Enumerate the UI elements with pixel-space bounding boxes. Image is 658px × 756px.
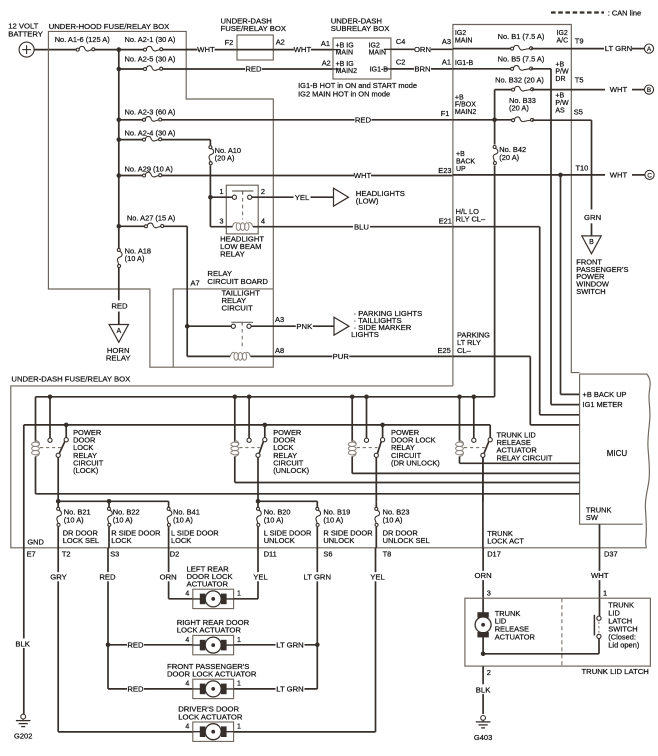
svg-text:No. A2-4 (30 A): No. A2-4 (30 A)	[125, 129, 176, 138]
svg-text:LOCK: LOCK	[171, 536, 191, 545]
svg-text:MAIN: MAIN	[369, 50, 387, 57]
fuse No. A2-1 (30 A)	[125, 35, 197, 51]
svg-text:PUR: PUR	[333, 352, 350, 361]
svg-text:UP: UP	[456, 166, 466, 173]
trunk lid latch switch	[594, 600, 639, 649]
svg-text:YEL: YEL	[295, 193, 310, 202]
svg-text:(LOW): (LOW)	[356, 197, 379, 206]
MICU box	[580, 374, 651, 548]
svg-text:IG1 METER: IG1 METER	[583, 400, 624, 409]
UNDER-DASH FUSE/RELAY BOX outline (bottom)	[11, 375, 647, 548]
svg-text:No. A2-1 (30 A): No. A2-1 (30 A)	[125, 35, 176, 44]
svg-text:MAIN2: MAIN2	[336, 68, 358, 75]
svg-text:No. A27 (15 A): No. A27 (15 A)	[127, 214, 176, 223]
svg-text:S6: S6	[323, 549, 332, 558]
label POWER DOOR LOCK RELAY CIRCUIT (UNLOCK)	[273, 428, 309, 475]
svg-text:ORN: ORN	[414, 45, 431, 54]
svg-text:(10 A): (10 A)	[125, 254, 145, 263]
svg-text:BLK: BLK	[476, 685, 491, 694]
svg-text:1: 1	[603, 588, 607, 597]
svg-text:LOCK SEL: LOCK SEL	[63, 536, 99, 545]
relay coil – power door lock (UNLOCK)	[231, 397, 580, 483]
svg-text:WHT: WHT	[610, 85, 628, 94]
svg-text:+B: +B	[456, 151, 465, 158]
svg-text:(LOCK): (LOCK)	[73, 466, 99, 475]
svg-text:C4: C4	[396, 37, 406, 46]
label +B F/BOX MAIN2 (F1)	[455, 94, 477, 116]
svg-text:A: A	[647, 46, 652, 53]
svg-text:GRY: GRY	[50, 572, 67, 581]
UNDER-DASH SUBRELAY BOX	[331, 16, 391, 79]
wire – lock relay output bus to fuses B21 B22 B41	[56, 499, 169, 504]
svg-text:T8: T8	[383, 549, 392, 558]
fuse No. B32 (20 A) row – +B P/W DR	[495, 61, 605, 120]
battery 12 VOLT	[8, 22, 43, 58]
svg-text:(10 A): (10 A)	[383, 515, 403, 524]
wire LT GRN to terminal A	[604, 44, 654, 53]
label POWER DOOR LOCK RELAY CIRCUIT (LOCK)	[73, 428, 104, 475]
svg-text:(10 A): (10 A)	[323, 515, 343, 524]
wire PNK – taillight relay A3 to parking lights	[251, 315, 334, 331]
label POWER DOOR LOCK RELAY CIRCUIT (DR UNLOCK)	[391, 428, 440, 467]
wire BRN – subrelay C2 to under-dash A1	[391, 57, 453, 73]
svg-text:No. A2-3 (60 A): No. A2-3 (60 A)	[125, 108, 176, 117]
svg-text:MICU: MICU	[607, 449, 628, 458]
svg-text:A2: A2	[322, 58, 331, 67]
fuse No. A27 (15 A)	[117, 214, 188, 229]
driver's door lock actuator	[178, 705, 243, 742]
wire RED – to horn relay	[111, 268, 128, 325]
svg-text:B: B	[647, 87, 651, 94]
taillight relay	[230, 322, 253, 360]
svg-text:CL–: CL–	[457, 346, 472, 355]
svg-text:T5: T5	[575, 75, 584, 84]
svg-text:E25: E25	[438, 346, 451, 355]
svg-text:RED: RED	[127, 640, 144, 649]
fuse No. B19 (10 A) – R SIDE DOOR UNLOCK (S6)	[316, 501, 373, 558]
svg-text:E23: E23	[438, 166, 451, 175]
note – IG1-B / IG2 MAIN hot modes	[298, 81, 417, 98]
wire YEL – relay pin 2 to headlights	[252, 193, 334, 202]
wire ORN – D17 to trunk lid release actuator	[475, 548, 492, 613]
svg-text:GRN: GRN	[584, 213, 601, 222]
wire LT GRN – S6 to right rear / front passenger actuators pin 1	[227, 548, 332, 694]
svg-text:RELAY CIRCUIT: RELAY CIRCUIT	[497, 453, 553, 462]
svg-text:BRN: BRN	[414, 65, 430, 74]
svg-text:IG1-B: IG1-B	[370, 66, 389, 73]
label TRUNK LID RELEASE ACTUATOR RELAY CIRCUIT	[497, 431, 553, 463]
svg-text:P/W: P/W	[555, 100, 569, 107]
svg-text:F2: F2	[225, 38, 234, 47]
wire – actuator to latch switch	[481, 637, 599, 656]
svg-text:ORN: ORN	[475, 571, 492, 580]
svg-text:LT GRN: LT GRN	[605, 44, 632, 53]
wire BLK – actuator pin 2 to ground G403	[473, 666, 493, 714]
svg-text:A3: A3	[442, 37, 451, 46]
svg-text:A7: A7	[191, 279, 200, 288]
svg-text:RED: RED	[245, 65, 262, 74]
svg-text:IG1-B: IG1-B	[455, 60, 474, 67]
wire ORN – D2 to left rear actuator	[160, 548, 200, 599]
wire WHT – fuse A2-1 to under-dash F2	[186, 45, 237, 54]
svg-text:MAIN2: MAIN2	[455, 109, 477, 116]
fuse No. B42 (20 A) – +B BACK UP	[493, 120, 526, 397]
label PARKING LT RLY CL- (E25)	[457, 331, 490, 355]
svg-text:2: 2	[487, 668, 491, 677]
wire BLU – relay pin 4 to under-dash E21	[253, 216, 453, 231]
svg-text:+B BACK UP: +B BACK UP	[583, 390, 627, 399]
svg-text:A2: A2	[276, 37, 285, 46]
trunk lid release actuator (motor)	[475, 609, 535, 641]
svg-text:3: 3	[487, 588, 491, 597]
svg-text:T10: T10	[576, 164, 589, 173]
svg-text:WHT: WHT	[197, 45, 215, 54]
wire GRN – S5 down to window switch	[584, 120, 601, 236]
svg-text:CIRCUIT BOARD: CIRCUIT BOARD	[207, 277, 268, 286]
svg-text:(DR UNLOCK): (DR UNLOCK)	[391, 458, 440, 467]
svg-text:UNDER-HOOD FUSE/RELAY BOX: UNDER-HOOD FUSE/RELAY BOX	[49, 22, 170, 31]
svg-text:IG2: IG2	[455, 30, 466, 37]
svg-text:F1: F1	[441, 109, 450, 118]
left rear door lock actuator	[185, 564, 241, 608]
svg-text:2: 2	[261, 187, 265, 196]
svg-text:C2: C2	[396, 57, 406, 66]
svg-text:RELAY: RELAY	[106, 353, 131, 362]
svg-text:(10 A): (10 A)	[64, 515, 84, 524]
svg-text:ACTUATOR: ACTUATOR	[495, 632, 536, 641]
fuse No. A10 (20 A)	[209, 140, 241, 198]
relay switch – trunk lid release actuator relay	[457, 395, 492, 502]
svg-text:DR: DR	[555, 76, 565, 83]
wire – MICU TRUNK SW to D37	[600, 524, 618, 558]
svg-text:3: 3	[219, 216, 223, 225]
svg-text:RED: RED	[127, 685, 144, 694]
svg-text:D37: D37	[604, 549, 618, 558]
wire – +B feed bus (top)	[36, 396, 495, 398]
relay coil – power door lock (LOCK)	[32, 397, 580, 494]
svg-text:E21: E21	[439, 216, 452, 225]
svg-text:1: 1	[237, 591, 241, 598]
svg-text:D2: D2	[170, 549, 180, 558]
svg-text:4: 4	[185, 681, 189, 688]
svg-text:A8: A8	[275, 346, 284, 355]
wire YEL – D11 to left rear actuator pin 1	[227, 548, 269, 599]
svg-text:YEL: YEL	[253, 572, 268, 581]
wire WHT – E23 row to terminal C	[453, 164, 654, 180]
svg-text:LOCK: LOCK	[111, 536, 131, 545]
svg-text:LT GRN: LT GRN	[276, 640, 303, 649]
svg-text:C: C	[647, 172, 652, 179]
svg-text:LOCK ACTUATOR: LOCK ACTUATOR	[177, 626, 242, 635]
svg-text:+B: +B	[555, 61, 564, 68]
headlight low beam relay	[219, 185, 265, 234]
svg-text:4: 4	[261, 216, 265, 225]
svg-text:1: 1	[237, 724, 241, 731]
wire – E21 to MICU	[453, 227, 580, 415]
fuse No. B21 (10 A) – DR DOOR LOCK SEL (T2)	[57, 501, 99, 558]
TRUNK LID LATCH box	[465, 598, 651, 676]
svg-text:BLK: BLK	[15, 639, 30, 648]
svg-text:T2: T2	[62, 549, 71, 558]
svg-text:BATTERY: BATTERY	[8, 30, 43, 39]
svg-text:G202: G202	[14, 732, 32, 741]
svg-text:(UNLOCK): (UNLOCK)	[273, 466, 309, 475]
svg-text:YEL: YEL	[370, 572, 385, 581]
wire – trunk relay output to D17	[483, 457, 525, 558]
svg-text:D11: D11	[264, 549, 277, 558]
svg-text:No. A1-6 (125 A): No. A1-6 (125 A)	[55, 35, 111, 44]
svg-text:No. A2-5 (30 A): No. A2-5 (30 A)	[125, 55, 176, 64]
fuse No. A2-5 (30 A)	[117, 55, 176, 72]
svg-text:No. B32 (20 A): No. B32 (20 A)	[495, 75, 544, 84]
wire WHT – fuse A29 to under-dash E23	[162, 166, 453, 180]
UNDER-HOOD FUSE/RELAY BOX outline	[48, 22, 273, 367]
wire – unlock relay output bus to fuses B20 B19	[256, 499, 318, 504]
front passenger's door lock actuator	[167, 662, 257, 699]
svg-text:D17: D17	[487, 549, 501, 558]
wire RED – fuse A2-5 to subrelay A2	[163, 58, 333, 73]
svg-text:RED: RED	[111, 301, 128, 310]
wire – E25 to MICU	[453, 356, 580, 425]
wire WHT – F2 box to subrelay A1	[273, 39, 333, 54]
wire ORN – subrelay C4 to under-dash A3	[391, 37, 453, 54]
svg-text:SW: SW	[586, 513, 598, 522]
svg-text:LIGHTS: LIGHTS	[351, 330, 379, 339]
parking lights load arrow	[334, 309, 422, 339]
svg-text:RELAY: RELAY	[220, 250, 245, 259]
wire – fuse A27 down to relay circuit board (A7)	[187, 226, 199, 326]
svg-text:+B IG: +B IG	[336, 42, 354, 49]
svg-text:WHT: WHT	[610, 171, 628, 180]
fuse No. B41 (10 A) – L SIDE DOOR LOCK (D2)	[167, 501, 219, 558]
svg-text:TRUNK LID LATCH: TRUNK LID LATCH	[581, 667, 648, 676]
svg-text:+B: +B	[555, 93, 564, 100]
fuse No. B22 (10 A) – R SIDE DOOR LOCK (S3)	[108, 501, 162, 558]
CAN line legend	[551, 8, 641, 17]
svg-text:F/BOX: F/BOX	[455, 102, 476, 109]
fuse No. A18 (10 A)	[117, 246, 151, 267]
svg-text:(10 A): (10 A)	[113, 515, 133, 524]
svg-text:FUSE/RELAY BOX: FUSE/RELAY BOX	[221, 24, 287, 33]
headlights (LOW) load arrow	[334, 188, 405, 206]
svg-text:P/W: P/W	[555, 69, 569, 76]
svg-text:CIRCUIT: CIRCUIT	[222, 304, 253, 313]
svg-text:No. B5 (7.5 A): No. B5 (7.5 A)	[498, 55, 545, 64]
svg-text:BACK: BACK	[456, 158, 475, 165]
svg-text:(20 A): (20 A)	[215, 154, 235, 163]
svg-text:RLY CL–: RLY CL–	[456, 215, 486, 224]
svg-text:S5: S5	[574, 107, 583, 116]
svg-text:SWITCH: SWITCH	[576, 287, 605, 296]
svg-text:BLU: BLU	[354, 222, 369, 231]
svg-text:ORN: ORN	[160, 572, 177, 581]
relay switch – power door lock (DR UNLOCK)	[350, 395, 385, 502]
svg-text:UNDER-DASH FUSE/RELAY BOX: UNDER-DASH FUSE/RELAY BOX	[11, 375, 130, 384]
svg-text:RED: RED	[355, 115, 372, 124]
fuse No. B23 (10 A) – DR DOOR UNLOCK SEL (T8)	[375, 501, 430, 558]
relay switch – power door lock (LOCK)	[40, 395, 69, 502]
horn relay (A)	[106, 325, 131, 363]
svg-text:+B IG: +B IG	[336, 61, 354, 68]
svg-text:PNK: PNK	[296, 322, 313, 331]
svg-text:WHT: WHT	[591, 571, 609, 580]
label RELAY CIRCUIT BOARD	[207, 269, 268, 286]
fuse No. B33 (20 A) row – +B P/W AS / S5	[453, 93, 592, 123]
svg-text:WHT: WHT	[294, 45, 312, 54]
relay coil – trunk lid release actuator relay	[456, 397, 580, 464]
label GND (E7)	[27, 537, 45, 558]
UNDER-DASH FUSE/RELAY BOX outline (right)	[453, 25, 580, 386]
svg-text:UNLOCK SEL: UNLOCK SEL	[383, 536, 430, 545]
svg-text:ACTUATOR: ACTUATOR	[187, 580, 229, 589]
svg-text:T9: T9	[575, 37, 584, 46]
svg-text:SUBRELAY BOX: SUBRELAY BOX	[331, 24, 390, 33]
fuse No. A2-4 (30 A)	[117, 129, 211, 142]
wire – T10 junction down to MICU +B BACK UP	[558, 173, 579, 395]
svg-text:GND: GND	[27, 537, 44, 546]
fuse No. B5 (7.5 A) row – IG1-B to IG1 METER	[453, 55, 580, 405]
svg-text:IG2 MAIN HOT in ON mode: IG2 MAIN HOT in ON mode	[298, 89, 390, 98]
svg-text:MAIN: MAIN	[455, 37, 473, 44]
fuse No. A2-3 (60 A)	[117, 108, 176, 123]
svg-text:LT GRN: LT GRN	[276, 685, 303, 694]
label HEADLIGHT LOW BEAM RELAY	[220, 234, 264, 258]
svg-text:: CAN line: : CAN line	[608, 8, 641, 17]
svg-text:4: 4	[185, 724, 189, 731]
wire – A27 feed to taillight relay contact and coil	[185, 324, 231, 356]
label +B BACK UP (E23)	[456, 151, 475, 173]
svg-text:1: 1	[219, 187, 223, 196]
svg-text:RED: RED	[99, 572, 116, 581]
wire BLK – E7 to ground G202	[13, 548, 33, 714]
front passenger power window switch (B)	[576, 236, 628, 296]
svg-text:IG2: IG2	[369, 42, 380, 49]
svg-text:A3: A3	[275, 315, 284, 324]
svg-text:4: 4	[185, 637, 189, 644]
TAILLIGHT RELAY CIRCUIT box	[173, 288, 273, 367]
wire YEL – T8 to driver actuator pin 1	[227, 548, 386, 732]
fuse No. A29 (10 A)	[117, 164, 174, 178]
svg-text:A1: A1	[321, 39, 330, 48]
svg-text:(20 A): (20 A)	[499, 153, 519, 162]
svg-text:LOCK ACT: LOCK ACT	[487, 537, 524, 546]
svg-text:A: A	[116, 328, 121, 335]
ground G403	[474, 716, 492, 743]
wire RED – fuse A2-3 to under-dash F1	[162, 109, 453, 124]
svg-text:A/C: A/C	[557, 37, 569, 44]
wire WHT – D37 to trunk lid latch switch	[591, 548, 609, 617]
svg-text:4: 4	[185, 591, 189, 598]
svg-text:S3: S3	[110, 549, 119, 558]
wire GRY – T2 to driver door lock actuator	[50, 548, 193, 732]
svg-text:(10 A): (10 A)	[264, 515, 284, 524]
svg-text:WHT: WHT	[354, 171, 372, 180]
relay switch – power door lock (UNLOCK)	[233, 395, 268, 502]
wire – battery to fuse A1-6	[34, 49, 76, 51]
wire – switched bus (2nd)	[24, 425, 490, 548]
svg-text:UNLOCK: UNLOCK	[264, 536, 295, 545]
svg-text:LT GRN: LT GRN	[304, 572, 331, 581]
label H/L LO RLY CL- (E21)	[456, 207, 486, 224]
fuse No. B20 (10 A) – L SIDE DOOR UNLOCK (D11)	[257, 501, 312, 558]
svg-text:AS: AS	[555, 107, 565, 114]
svg-text:No. A29 (10 A): No. A29 (10 A)	[125, 164, 174, 173]
wire – fuse A10 to relay pins 1 and 3	[208, 195, 233, 227]
ground G202	[14, 714, 32, 741]
svg-text:B: B	[589, 239, 594, 246]
svg-text:UNLOCK: UNLOCK	[323, 536, 354, 545]
right rear door lock actuator	[177, 618, 250, 655]
fuse No. B1 (7.5 A) row – IG2 A/C	[453, 30, 605, 50]
svg-text:DOOR LOCK ACTUATOR: DOOR LOCK ACTUATOR	[167, 670, 257, 679]
svg-text:LOCK ACTUATOR: LOCK ACTUATOR	[178, 712, 243, 721]
svg-text:IG2: IG2	[557, 30, 568, 37]
svg-text:(10 A): (10 A)	[173, 515, 193, 524]
fuse No. A1-6 (125 A)	[55, 35, 111, 51]
svg-text:+B: +B	[455, 94, 464, 101]
svg-text:MAIN: MAIN	[336, 50, 354, 57]
wire RED – S3 to right rear and front passenger actuators	[99, 548, 200, 694]
svg-text:A1: A1	[442, 57, 451, 66]
svg-text:1: 1	[237, 637, 241, 644]
wire WHT to terminal B	[610, 85, 654, 94]
svg-text:Lid open): Lid open)	[608, 640, 640, 649]
svg-text:No. B1 (7.5 A): No. B1 (7.5 A)	[498, 32, 545, 41]
wire – main bus (under-hood)	[95, 47, 144, 248]
relay coil – power door lock (DR UNLOCK)	[348, 397, 579, 474]
svg-text:G403: G403	[474, 733, 492, 742]
svg-text:E7: E7	[27, 549, 36, 558]
UNDER-DASH FUSE/RELAY BOX (F2 connector box)	[221, 16, 287, 60]
svg-text:(20 A): (20 A)	[509, 104, 529, 113]
svg-text:1: 1	[237, 681, 241, 688]
wire PUR – taillight relay A8 to under-dash E25	[251, 346, 454, 361]
